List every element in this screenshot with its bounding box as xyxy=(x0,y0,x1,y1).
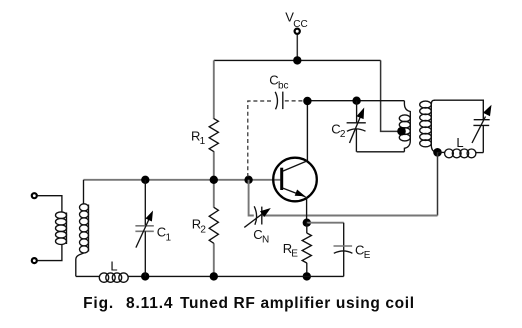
svg-text:bc: bc xyxy=(278,80,289,91)
svg-text:8.11.4: 8.11.4 xyxy=(126,295,173,312)
svg-text:L: L xyxy=(456,135,463,150)
svg-text:Tuned RF amplifier using coil: Tuned RF amplifier using coil xyxy=(180,295,415,312)
svg-text:E: E xyxy=(364,250,371,261)
svg-text:L: L xyxy=(110,259,117,274)
svg-text:N: N xyxy=(262,235,269,246)
svg-text:1: 1 xyxy=(200,136,206,147)
svg-text:2: 2 xyxy=(340,129,346,140)
svg-text:1: 1 xyxy=(166,232,172,243)
svg-text:CC: CC xyxy=(293,19,307,30)
svg-text:Fig.: Fig. xyxy=(83,295,114,312)
svg-text:2: 2 xyxy=(200,224,206,235)
svg-text:E: E xyxy=(291,249,298,260)
